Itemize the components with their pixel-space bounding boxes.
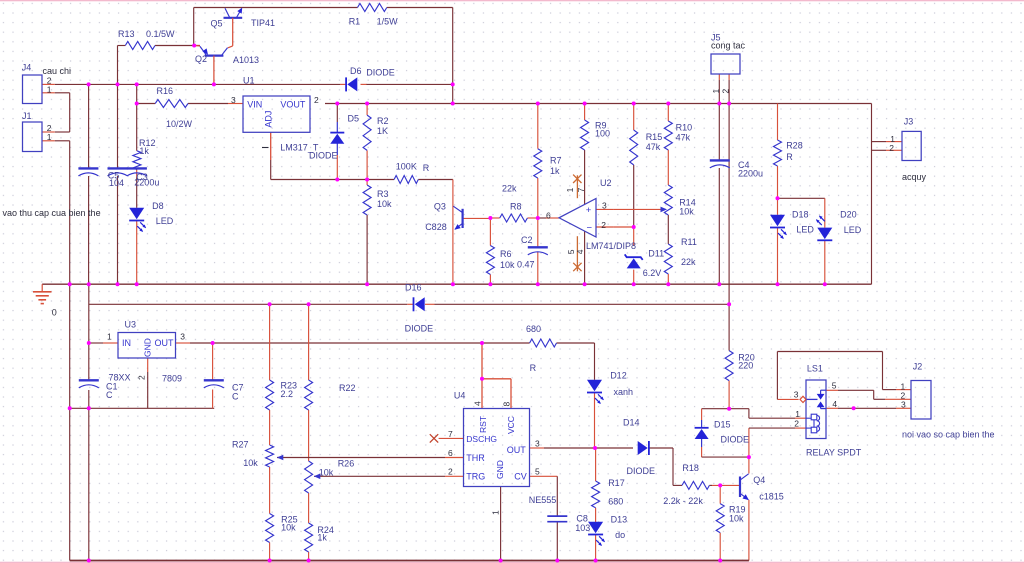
svg-text:47k: 47k: [646, 142, 661, 152]
svg-text:10k: 10k: [729, 514, 744, 524]
svg-text:IN: IN: [122, 338, 131, 348]
svg-text:OUT: OUT: [155, 338, 175, 348]
svg-text:GND: GND: [495, 460, 505, 479]
svg-text:3: 3: [794, 389, 799, 399]
svg-text:4: 4: [832, 399, 837, 409]
svg-text:C8: C8: [576, 514, 588, 524]
svg-text:LED: LED: [156, 216, 174, 226]
svg-text:xanh: xanh: [614, 387, 634, 397]
svg-text:cau chi: cau chi: [43, 66, 72, 76]
svg-text:7: 7: [448, 429, 453, 439]
svg-text:R3: R3: [377, 189, 389, 199]
svg-text:D6: D6: [350, 66, 362, 76]
svg-text:GND: GND: [143, 338, 153, 357]
svg-text:10k: 10k: [319, 468, 334, 478]
svg-text:1: 1: [711, 89, 721, 94]
svg-text:10k: 10k: [281, 523, 296, 533]
svg-text:RELAY SPDT: RELAY SPDT: [806, 448, 862, 458]
svg-text:R: R: [423, 163, 430, 173]
svg-text:104: 104: [109, 178, 124, 188]
svg-text:R: R: [786, 152, 793, 162]
svg-text:LED: LED: [844, 225, 862, 235]
svg-text:TIP41: TIP41: [251, 18, 275, 28]
svg-text:1k: 1k: [139, 146, 149, 156]
svg-text:LED: LED: [796, 224, 814, 234]
svg-text:D12: D12: [610, 371, 627, 381]
svg-text:D14: D14: [623, 418, 640, 428]
svg-text:0.1/5W: 0.1/5W: [146, 29, 175, 39]
svg-text:D8: D8: [152, 201, 164, 211]
svg-text:DIODE: DIODE: [405, 324, 434, 334]
svg-text:Q4: Q4: [753, 475, 765, 485]
svg-text:10k: 10k: [500, 260, 515, 270]
svg-text:1: 1: [47, 132, 52, 142]
svg-text:2.2k - 22k: 2.2k - 22k: [663, 496, 703, 506]
svg-text:7: 7: [576, 187, 586, 192]
svg-text:ADJ: ADJ: [264, 111, 274, 128]
svg-text:U3: U3: [125, 320, 137, 330]
svg-text:1: 1: [47, 84, 52, 94]
svg-text:C: C: [106, 390, 113, 400]
svg-text:D5: D5: [348, 114, 360, 124]
svg-text:J2: J2: [913, 362, 923, 372]
svg-text:5: 5: [535, 467, 540, 477]
svg-text:2200u: 2200u: [134, 178, 159, 188]
svg-text:R17: R17: [608, 478, 625, 488]
svg-text:THR: THR: [466, 453, 485, 463]
svg-text:2: 2: [448, 467, 453, 477]
svg-text:R7: R7: [550, 156, 562, 166]
svg-text:U2: U2: [600, 178, 612, 188]
svg-text:0.47: 0.47: [517, 260, 535, 270]
svg-text:A1013: A1013: [233, 55, 259, 65]
svg-text:R: R: [530, 363, 537, 373]
svg-text:47k: 47k: [676, 132, 691, 142]
svg-text:R2: R2: [377, 116, 389, 126]
svg-text:1k: 1k: [550, 166, 560, 176]
svg-text:DIODE: DIODE: [721, 435, 750, 445]
svg-text:2: 2: [137, 375, 147, 380]
svg-text:acquy: acquy: [902, 172, 927, 182]
svg-text:DIODE: DIODE: [627, 466, 656, 476]
svg-text:2.2: 2.2: [281, 389, 294, 399]
svg-text:680: 680: [526, 324, 541, 334]
svg-text:VOUT: VOUT: [280, 100, 306, 110]
svg-text:D15: D15: [714, 420, 731, 430]
svg-text:2: 2: [721, 89, 731, 94]
svg-text:10/2W: 10/2W: [166, 119, 193, 129]
svg-text:1: 1: [107, 332, 112, 342]
svg-text:OUT: OUT: [507, 445, 527, 455]
svg-text:R28: R28: [786, 141, 803, 151]
svg-text:Q2: Q2: [195, 54, 207, 64]
svg-text:22k: 22k: [502, 184, 517, 194]
svg-text:LS1: LS1: [807, 364, 823, 374]
svg-text:J3: J3: [904, 117, 914, 127]
svg-text:noi vao so cap bien the: noi vao so cap bien the: [902, 430, 995, 440]
svg-text:2200u: 2200u: [738, 169, 763, 179]
svg-text:R6: R6: [500, 249, 512, 259]
svg-text:Q3: Q3: [434, 202, 446, 212]
svg-text:R18: R18: [682, 463, 699, 473]
svg-text:1/5W: 1/5W: [377, 17, 399, 27]
svg-text:3: 3: [231, 95, 236, 105]
svg-text:DIODE: DIODE: [309, 151, 338, 161]
svg-text:TRG: TRG: [466, 472, 485, 482]
svg-text:680: 680: [608, 497, 623, 507]
svg-text:3: 3: [602, 201, 607, 211]
svg-text:C2: C2: [521, 235, 533, 245]
svg-text:2: 2: [314, 95, 319, 105]
svg-text:D20: D20: [840, 210, 857, 220]
svg-text:220: 220: [738, 361, 753, 371]
svg-text:C828: C828: [425, 222, 447, 232]
svg-text:6: 6: [448, 448, 453, 458]
svg-text:3: 3: [901, 400, 906, 410]
svg-text:10k: 10k: [377, 199, 392, 209]
svg-text:J1: J1: [22, 111, 32, 121]
svg-text:100: 100: [595, 128, 610, 138]
svg-text:R1: R1: [349, 17, 361, 27]
svg-text:4: 4: [575, 249, 585, 254]
svg-text:3: 3: [535, 439, 540, 449]
svg-text:R10: R10: [676, 122, 693, 132]
svg-text:1: 1: [565, 187, 575, 192]
svg-text:4: 4: [473, 401, 483, 406]
svg-text:2: 2: [889, 143, 894, 153]
svg-text:22k: 22k: [681, 257, 696, 267]
svg-text:0: 0: [52, 308, 57, 318]
svg-text:C: C: [232, 392, 239, 402]
svg-text:CV: CV: [514, 472, 527, 482]
svg-text:6: 6: [546, 211, 551, 221]
svg-text:DIODE: DIODE: [366, 68, 395, 78]
svg-text:103: 103: [575, 523, 590, 533]
svg-text:R13: R13: [118, 29, 135, 39]
svg-text:c1815: c1815: [759, 492, 784, 502]
svg-text:10k: 10k: [243, 458, 258, 468]
svg-text:D16: D16: [405, 283, 422, 293]
svg-text:R16: R16: [157, 86, 174, 96]
svg-text:R15: R15: [646, 132, 663, 142]
svg-text:U4: U4: [454, 391, 466, 401]
svg-text:NE555: NE555: [529, 495, 557, 505]
svg-text:D13: D13: [611, 515, 628, 525]
svg-text:U1: U1: [243, 76, 255, 86]
svg-text:100K: 100K: [396, 162, 417, 172]
svg-text:LM741/DIP8: LM741/DIP8: [586, 241, 636, 251]
svg-text:1: 1: [491, 510, 501, 515]
svg-text:J4: J4: [22, 63, 32, 73]
svg-text:5: 5: [832, 380, 837, 390]
svg-text:cong tac: cong tac: [711, 41, 746, 51]
svg-text:2: 2: [794, 418, 799, 428]
svg-text:VIN: VIN: [247, 100, 262, 110]
svg-text:+: +: [586, 205, 592, 216]
svg-text:D11: D11: [648, 249, 664, 259]
svg-text:DSCHG: DSCHG: [466, 434, 497, 444]
svg-text:do: do: [615, 530, 625, 540]
svg-text:1k: 1k: [317, 533, 327, 543]
svg-text:VCC: VCC: [506, 416, 516, 434]
svg-text:Q5: Q5: [211, 19, 223, 29]
svg-text:7809: 7809: [162, 374, 182, 384]
svg-text:6.2V: 6.2V: [643, 268, 662, 278]
svg-text:8: 8: [502, 402, 512, 407]
svg-text:10k: 10k: [679, 207, 694, 217]
svg-text:R22: R22: [339, 383, 356, 393]
svg-text:R26: R26: [338, 458, 355, 468]
svg-text:RST: RST: [478, 416, 488, 433]
svg-text:R8: R8: [510, 202, 522, 212]
svg-text:D18: D18: [792, 210, 809, 220]
svg-text:2: 2: [601, 220, 606, 230]
svg-text:1K: 1K: [377, 126, 388, 136]
svg-text:vao thu cap cua bien the: vao thu cap cua bien the: [3, 208, 101, 218]
svg-text:3: 3: [180, 332, 185, 342]
svg-text:R27: R27: [232, 440, 249, 450]
svg-text:R11: R11: [681, 237, 697, 247]
svg-text:−: −: [587, 222, 593, 233]
